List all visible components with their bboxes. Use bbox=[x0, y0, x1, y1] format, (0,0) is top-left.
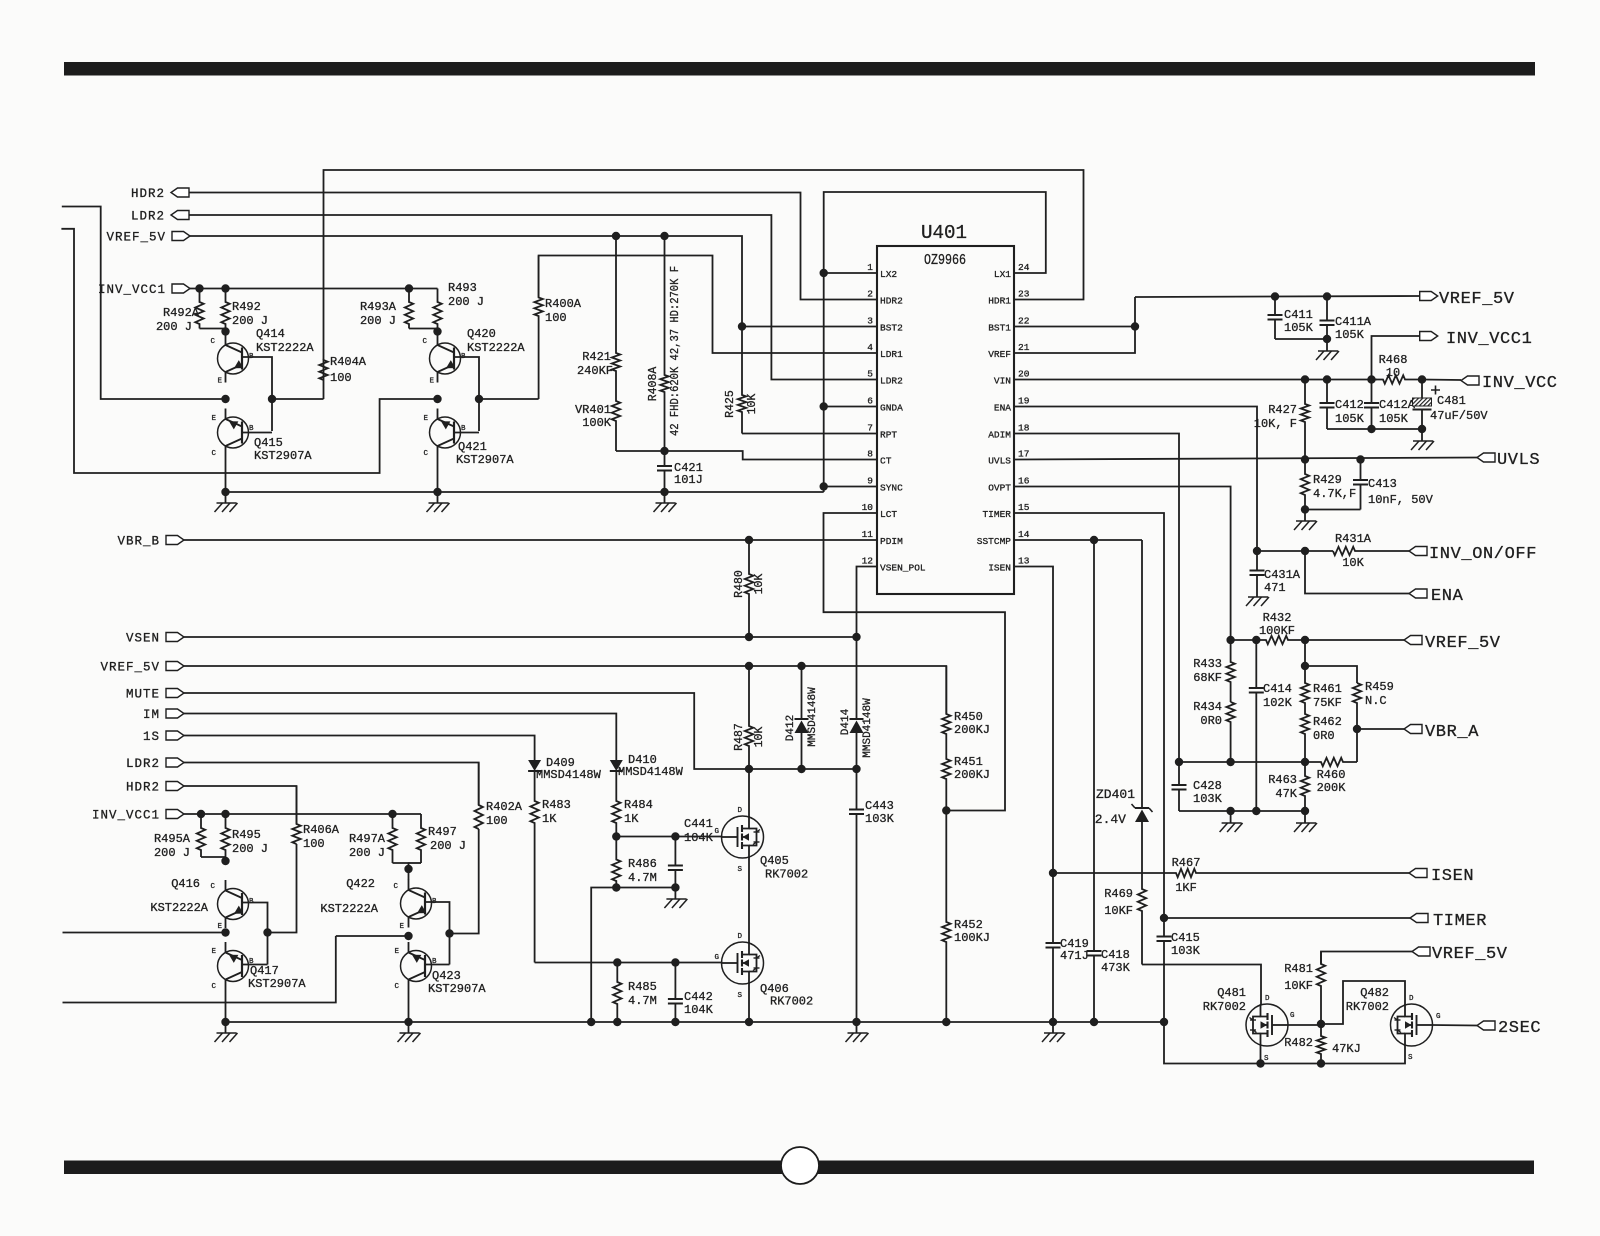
junction dot VBR_A node bbox=[1353, 725, 1361, 733]
junction dots VSEN line bbox=[745, 633, 861, 641]
Q422 pin B bbox=[432, 898, 437, 906]
U401 pin 22 label BST1 bbox=[988, 323, 1011, 334]
wire C421 node to pin 8 CT bbox=[665, 451, 878, 460]
wire drain node line bbox=[749, 768, 857, 770]
svg-text:R487: R487 bbox=[733, 723, 746, 751]
label C413 value bbox=[1368, 493, 1434, 507]
svg-text:R485: R485 bbox=[628, 980, 657, 994]
connector HDR2 (left) bbox=[166, 782, 184, 791]
label C415 value bbox=[1171, 944, 1201, 958]
resistor R459 bbox=[1353, 683, 1361, 729]
wire Q423 base bbox=[425, 964, 450, 966]
Q423 pin B bbox=[432, 958, 437, 966]
label R431A bbox=[1335, 532, 1372, 546]
label R481 bbox=[1284, 962, 1313, 976]
resistor R487 bbox=[745, 666, 753, 769]
wire Q422 collector bbox=[408, 869, 410, 880]
svg-text:103K: 103K bbox=[865, 812, 895, 826]
connector 1S (left) bbox=[166, 731, 184, 740]
label R460 value bbox=[1317, 781, 1347, 795]
Q422 pin C bbox=[393, 883, 398, 891]
label R421 value bbox=[577, 364, 613, 378]
svg-text:200 J: 200 J bbox=[232, 314, 268, 328]
wire R492A bottom to node bbox=[200, 328, 226, 330]
wire Q481 gate to node bbox=[1288, 1024, 1322, 1026]
trimmer VR401 bbox=[612, 386, 620, 451]
label R493 bbox=[448, 281, 477, 295]
label R497 value bbox=[430, 839, 466, 853]
label R461 value bbox=[1313, 696, 1342, 710]
label R462 bbox=[1313, 715, 1342, 729]
Q481 pin G bbox=[1290, 1012, 1295, 1020]
U401 pin 20 label VIN bbox=[994, 376, 1011, 387]
svg-text:KST2907A: KST2907A bbox=[428, 982, 486, 996]
svg-text:R406A: R406A bbox=[303, 823, 340, 837]
label R467 value bbox=[1175, 881, 1197, 895]
Q406 pin G bbox=[714, 954, 719, 962]
svg-text:1KF: 1KF bbox=[1175, 881, 1197, 895]
svg-text:UVLS: UVLS bbox=[988, 456, 1011, 467]
junction dot R485 top bbox=[613, 958, 621, 966]
svg-text:R469: R469 bbox=[1104, 887, 1133, 901]
label Q423 bbox=[432, 969, 461, 983]
svg-text:47K: 47K bbox=[1275, 787, 1297, 801]
svg-text:10K: 10K bbox=[753, 727, 766, 748]
wire HDR2 line to R406A bbox=[184, 786, 297, 824]
label C412A bbox=[1379, 398, 1416, 412]
junction dot base node pair1 bbox=[268, 395, 276, 403]
junction dot R484/R486/gate bbox=[612, 832, 620, 840]
svg-text:G: G bbox=[1436, 1013, 1441, 1021]
junction dot Q414 emitter node bbox=[221, 395, 229, 403]
svg-text:R467: R467 bbox=[1172, 856, 1201, 870]
label R433 bbox=[1193, 657, 1222, 671]
U401 pin 18 label ADIM bbox=[988, 430, 1011, 441]
label R425 (rotated) bbox=[724, 390, 737, 418]
label R468 bbox=[1379, 353, 1408, 367]
label Q405 bbox=[760, 854, 789, 868]
wire R486 bottom node bbox=[591, 888, 675, 1023]
label Q481 bbox=[1217, 986, 1246, 1000]
mosfet Q405 bbox=[722, 816, 764, 858]
svg-text:100: 100 bbox=[486, 814, 508, 828]
svg-text:D412: D412 bbox=[785, 715, 797, 741]
wire R459 loop top bbox=[1305, 666, 1357, 683]
U401 pin 7 number bbox=[867, 423, 873, 434]
label R495 bbox=[232, 828, 261, 842]
svg-text:C428: C428 bbox=[1193, 779, 1222, 793]
svg-text:22: 22 bbox=[1018, 316, 1030, 327]
connector UVLS bbox=[1477, 453, 1495, 462]
svg-text:LX1: LX1 bbox=[994, 269, 1011, 280]
junction dot C421 top node bbox=[660, 447, 668, 455]
svg-text:100: 100 bbox=[330, 371, 352, 385]
label HDR2 (top) bbox=[131, 187, 165, 201]
svg-text:VREF_5V: VREF_5V bbox=[1432, 945, 1508, 964]
wire source rail bbox=[1164, 1022, 1405, 1064]
junction dot TIMER line bbox=[1160, 914, 1168, 922]
svg-text:R483: R483 bbox=[542, 798, 571, 812]
svg-text:R481: R481 bbox=[1284, 962, 1313, 976]
label R460 bbox=[1317, 768, 1346, 782]
label R493A value bbox=[360, 314, 396, 328]
Q414 pin E bbox=[217, 378, 222, 386]
svg-text:TIMER: TIMER bbox=[982, 509, 1011, 520]
Q420 pin E bbox=[429, 378, 434, 386]
label C412 value bbox=[1335, 412, 1365, 426]
connector LDR2 (left) bbox=[166, 758, 184, 767]
svg-text:HDR2: HDR2 bbox=[131, 187, 165, 201]
Q417 pin C bbox=[211, 983, 216, 991]
svg-text:INV_VCC1: INV_VCC1 bbox=[98, 283, 166, 297]
label R450 value bbox=[954, 723, 990, 737]
label R400A value bbox=[545, 311, 567, 325]
junction dots UVLS line bbox=[1301, 455, 1365, 463]
Q416 pin B bbox=[249, 898, 254, 906]
svg-text:23: 23 bbox=[1018, 289, 1030, 300]
svg-text:200K: 200K bbox=[1317, 781, 1347, 795]
connector VREF_5V (left) bbox=[166, 662, 184, 671]
Q481 pin S bbox=[1264, 1055, 1269, 1063]
label R484 value bbox=[624, 812, 639, 826]
junction dot R486 node on rail bbox=[587, 1018, 595, 1026]
svg-text:C418: C418 bbox=[1101, 948, 1130, 962]
svg-text:10KF: 10KF bbox=[1284, 979, 1313, 993]
Q415 pin E bbox=[211, 415, 216, 423]
resistor R486 bbox=[612, 837, 620, 888]
wire BST2 pin 3 stub bbox=[742, 326, 877, 328]
svg-text:ADIM: ADIM bbox=[988, 430, 1011, 441]
svg-text:B: B bbox=[432, 958, 437, 966]
ground symbol under C431A bbox=[1246, 586, 1269, 606]
resistor R482 bbox=[1317, 1024, 1325, 1064]
capacitor C414 bbox=[1249, 640, 1264, 811]
svg-text:C442: C442 bbox=[684, 990, 713, 1004]
svg-text:100KJ: 100KJ bbox=[954, 931, 990, 945]
U401 pin 20 number bbox=[1018, 369, 1030, 380]
label C428 value bbox=[1193, 792, 1223, 806]
svg-text:10: 10 bbox=[1386, 366, 1400, 380]
wire VR401 bottom to C421 node bbox=[616, 450, 665, 452]
mosfet Q482 bbox=[1391, 1004, 1433, 1046]
U401 pin 12 label VSEN_POL bbox=[880, 563, 926, 574]
label R461 bbox=[1313, 682, 1342, 696]
svg-text:200KJ: 200KJ bbox=[954, 723, 990, 737]
label C412 bbox=[1335, 398, 1364, 412]
connector TIMER bbox=[1410, 914, 1428, 923]
wire Q482 gate to 2SEC bbox=[1432, 1024, 1477, 1027]
wire lower divider node bbox=[1179, 761, 1305, 763]
svg-text:105K: 105K bbox=[1284, 321, 1314, 335]
Q421 pin B bbox=[461, 425, 466, 433]
svg-text:D: D bbox=[1409, 995, 1414, 1003]
svg-text:R451: R451 bbox=[954, 755, 983, 769]
Q423 pin C bbox=[394, 983, 399, 991]
svg-text:R404A: R404A bbox=[330, 355, 367, 369]
svg-text:C481: C481 bbox=[1437, 394, 1466, 408]
wire LDR2 line to R402A bbox=[184, 763, 479, 806]
resistor R404A bbox=[319, 360, 327, 399]
diode D410 bbox=[610, 758, 623, 799]
svg-text:VREF: VREF bbox=[988, 349, 1011, 360]
svg-text:R450: R450 bbox=[954, 710, 983, 724]
label C442 value bbox=[684, 1003, 714, 1017]
label C421 bbox=[674, 461, 703, 475]
svg-text:471J: 471J bbox=[1060, 949, 1089, 963]
connector VREF_5V (top-left) bbox=[172, 232, 190, 241]
U401 pin 21 number bbox=[1018, 342, 1030, 353]
svg-text:Q417: Q417 bbox=[250, 964, 279, 978]
svg-text:VSEN: VSEN bbox=[126, 632, 160, 646]
junction dots source rail bbox=[1256, 1059, 1325, 1067]
resistor R408A bbox=[660, 236, 668, 451]
svg-text:RK7002: RK7002 bbox=[765, 868, 808, 882]
resistor R492A bbox=[195, 289, 203, 329]
label ZD401 value bbox=[1095, 812, 1126, 827]
Q415 pin C bbox=[211, 450, 216, 458]
svg-text:KST2222A: KST2222A bbox=[467, 341, 525, 355]
label R406A bbox=[303, 823, 340, 837]
transistor Q421 bbox=[430, 409, 461, 457]
zener ZD401 bbox=[1132, 540, 1153, 887]
capacitor C411 bbox=[1268, 297, 1283, 340]
svg-text:R493A: R493A bbox=[360, 300, 397, 314]
label C411A bbox=[1335, 315, 1372, 329]
wire pin 10 LCT to R450 bottom bbox=[824, 513, 1006, 811]
wire R497A bottom to node bbox=[393, 863, 409, 869]
svg-text:D: D bbox=[737, 807, 742, 815]
U401 pin 15 label TIMER bbox=[982, 509, 1011, 520]
label R497A value bbox=[349, 846, 385, 860]
label C431A bbox=[1264, 568, 1301, 582]
svg-text:75KF: 75KF bbox=[1313, 696, 1342, 710]
svg-text:R433: R433 bbox=[1193, 657, 1222, 671]
wire IM line to D410 bbox=[184, 714, 616, 759]
svg-text:C411: C411 bbox=[1284, 308, 1313, 322]
label VSEN (left) bbox=[126, 632, 160, 646]
capacitor C412 bbox=[1320, 380, 1335, 430]
label D412 part (rotated) bbox=[807, 687, 819, 747]
connector INV_VCC bbox=[1461, 376, 1479, 385]
Q481 pin D bbox=[1265, 995, 1270, 1003]
wire Q414 base to Q415 base bbox=[242, 357, 272, 431]
IC U401 box bbox=[877, 246, 1014, 594]
transistor Q417 bbox=[218, 942, 249, 990]
wire R483 to Q406 gate line bbox=[535, 962, 723, 964]
svg-text:C441: C441 bbox=[684, 817, 713, 831]
svg-text:VREF_5V: VREF_5V bbox=[100, 661, 160, 675]
resistor R495 bbox=[221, 814, 229, 861]
svg-text:21: 21 bbox=[1018, 342, 1030, 353]
U401 pin 5 number bbox=[867, 369, 873, 380]
label HDR2 (left) bbox=[126, 781, 160, 795]
svg-text:R434: R434 bbox=[1193, 700, 1222, 714]
page number circle bbox=[781, 1147, 819, 1184]
U401 pin 1 label LX2 bbox=[880, 269, 897, 280]
svg-text:INV_VCC1: INV_VCC1 bbox=[1446, 330, 1532, 349]
label R452 value bbox=[954, 931, 990, 945]
wire pin 12 VSEN_POL to D414 bbox=[857, 567, 878, 638]
label VR401 value bbox=[582, 416, 612, 430]
label D409 bbox=[546, 756, 575, 770]
Q416 pin C bbox=[210, 883, 215, 891]
svg-text:R460: R460 bbox=[1317, 768, 1346, 782]
label R404A bbox=[330, 355, 367, 369]
svg-text:S: S bbox=[737, 866, 742, 874]
svg-text:R482: R482 bbox=[1284, 1036, 1313, 1050]
U401 pin 6 label GNDA bbox=[880, 403, 903, 414]
label Q421 part bbox=[456, 453, 514, 467]
svg-text:2SEC: 2SEC bbox=[1498, 1019, 1541, 1038]
ground symbol under Q423 bbox=[398, 1022, 421, 1042]
svg-text:102K: 102K bbox=[1263, 696, 1293, 710]
wire R460 up to VBR_A bbox=[1356, 729, 1358, 762]
junction dot C419 bottom rail bbox=[1049, 1018, 1057, 1026]
junction dots drain node bbox=[797, 765, 860, 773]
svg-text:104K: 104K bbox=[684, 831, 714, 845]
label Q406 bbox=[760, 982, 789, 996]
label Q481 part bbox=[1203, 1000, 1246, 1014]
junction dot C415 bottom rail bbox=[1160, 1018, 1168, 1026]
label Q406 part bbox=[770, 995, 813, 1009]
transistor Q416 bbox=[218, 880, 249, 928]
wire Q421 base bbox=[454, 432, 479, 434]
label R485 value bbox=[628, 994, 657, 1008]
label D409 part bbox=[536, 768, 602, 782]
resistor R467 bbox=[1053, 869, 1409, 877]
svg-text:C443: C443 bbox=[865, 799, 894, 813]
junction dot R485 bottom bbox=[613, 1018, 621, 1026]
label R495 value bbox=[232, 842, 268, 856]
label C442 bbox=[684, 990, 713, 1004]
Q416 pin E bbox=[217, 923, 222, 931]
junction dot Q416 collector node bbox=[221, 857, 229, 865]
Q420 pin B bbox=[461, 353, 466, 361]
label R493 value bbox=[448, 295, 484, 309]
svg-text:C415: C415 bbox=[1171, 931, 1200, 945]
label R425 value (rotated) bbox=[746, 394, 759, 415]
wire C411 bottom join bbox=[1275, 338, 1327, 340]
svg-text:C: C bbox=[422, 338, 427, 346]
U401 pin 15 number bbox=[1018, 502, 1030, 513]
top border bar bbox=[64, 62, 1535, 76]
resistor R432 bbox=[1256, 636, 1305, 644]
label C421 value bbox=[674, 473, 703, 487]
label VBR_A bbox=[1425, 723, 1479, 742]
Q406 pin S bbox=[737, 992, 742, 1000]
svg-text:104K: 104K bbox=[684, 1003, 714, 1017]
capacitor C443 bbox=[849, 769, 864, 1022]
U401 pin 6 number bbox=[867, 396, 873, 407]
svg-text:SYNC: SYNC bbox=[880, 483, 903, 494]
label R480 (rotated) bbox=[733, 570, 746, 598]
svg-text:VSEN_POL: VSEN_POL bbox=[880, 563, 926, 574]
wire pin 6 GNDA stub bbox=[824, 406, 877, 408]
wire Q420 base node to R400A bbox=[479, 398, 539, 400]
label R495A bbox=[154, 832, 191, 846]
connector INV_ON/OFF bbox=[1409, 547, 1427, 556]
label C413 bbox=[1368, 477, 1397, 491]
wire Q415 base bbox=[242, 432, 272, 434]
label R432 value bbox=[1259, 624, 1295, 638]
wire INV_ON/OFF node bbox=[1257, 550, 1333, 552]
wire ground net to LX1 pin 24 bbox=[824, 192, 1046, 492]
label C418 bbox=[1101, 948, 1130, 962]
label VREF_5V (left) bbox=[100, 661, 160, 675]
svg-text:20: 20 bbox=[1018, 369, 1030, 380]
wire Q416 base to Q417 base bbox=[242, 903, 268, 965]
svg-text:4.7M: 4.7M bbox=[628, 871, 657, 885]
label R485 bbox=[628, 980, 657, 994]
junction dot C441 top bbox=[671, 832, 679, 840]
wire ISEN column to C419 bbox=[1052, 873, 1054, 943]
connector VREF_5V (mid right) bbox=[1404, 636, 1422, 645]
Q414 pin C bbox=[210, 338, 215, 346]
svg-text:2: 2 bbox=[867, 289, 873, 300]
wire pin 21 VREF up bbox=[1014, 297, 1135, 353]
junction dot Q416 emitter node bbox=[221, 928, 229, 936]
svg-text:200KJ: 200KJ bbox=[954, 768, 990, 782]
resistor R406A bbox=[292, 786, 300, 844]
svg-text:200 J: 200 J bbox=[154, 846, 190, 860]
svg-text:S: S bbox=[737, 992, 742, 1000]
svg-text:16: 16 bbox=[1018, 476, 1030, 487]
U401 pin 11 number bbox=[862, 529, 874, 540]
U401 pin 8 label CT bbox=[880, 456, 892, 467]
svg-text:E: E bbox=[217, 378, 222, 386]
junction dots VREF divider rail bbox=[1226, 636, 1309, 644]
label R408A value (rotated) bbox=[669, 266, 682, 436]
resistor R483 bbox=[530, 799, 538, 963]
wire left stub to Q422 emitter bbox=[63, 936, 336, 1003]
wire pin 20 VIN to INV_VCC bbox=[1014, 379, 1377, 381]
label TIMER bbox=[1433, 912, 1487, 931]
label C418 value bbox=[1101, 961, 1131, 975]
wire R432 to VREF_5V connector bbox=[1305, 639, 1404, 641]
label R484 bbox=[624, 798, 653, 812]
svg-text:E: E bbox=[399, 923, 404, 931]
junction dot C442 bottom bbox=[671, 1018, 679, 1026]
junction dot base node pair2 bbox=[475, 395, 483, 403]
junction dots INV_VCC1 top rail bbox=[195, 284, 413, 292]
ground symbol under C419 bbox=[1042, 1022, 1065, 1042]
label R487 value (rotated) bbox=[753, 727, 766, 748]
svg-text:R495: R495 bbox=[232, 828, 261, 842]
junction dot base node pair3 bbox=[263, 928, 271, 936]
svg-text:BST2: BST2 bbox=[880, 323, 903, 334]
svg-text:N.C: N.C bbox=[1365, 694, 1387, 708]
resistor R485 bbox=[613, 963, 621, 1023]
svg-text:B: B bbox=[461, 425, 466, 433]
svg-text:10nF, 50V: 10nF, 50V bbox=[1368, 493, 1434, 507]
label ISEN bbox=[1431, 867, 1474, 886]
resistor R421 bbox=[612, 236, 620, 386]
svg-text:R432: R432 bbox=[1263, 611, 1292, 625]
wire base node to R406A bottom bbox=[268, 844, 297, 933]
svg-text:10KF: 10KF bbox=[1104, 904, 1133, 918]
label C443 value bbox=[865, 812, 895, 826]
wire Q416 emitter line bbox=[63, 932, 226, 934]
capacitor C442 bbox=[668, 963, 683, 1023]
connector IM (left) bbox=[166, 709, 184, 718]
label R492A bbox=[163, 306, 200, 320]
junction dot BST1/VREF bbox=[1131, 322, 1139, 330]
ground symbol under C481 bbox=[1411, 429, 1434, 450]
label C412A value bbox=[1379, 412, 1409, 426]
svg-text:47uF/50V: 47uF/50V bbox=[1430, 409, 1488, 423]
junction dots VREF top rail bbox=[612, 232, 669, 240]
svg-text:VREF_5V: VREF_5V bbox=[1425, 634, 1501, 653]
